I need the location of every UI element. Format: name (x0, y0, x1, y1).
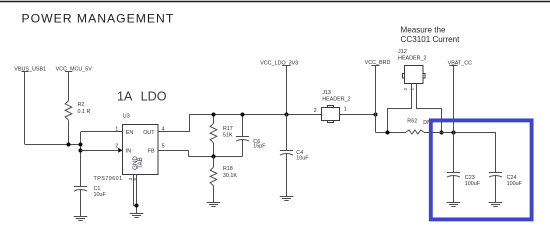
ground under U3 (130, 214, 144, 218)
junction FB/R17/R18 (212, 155, 216, 159)
junction node/VBUS (79, 143, 83, 147)
svg-text:J12: J12 (398, 49, 407, 55)
svg-text:VCC_LDO_3V3: VCC_LDO_3V3 (260, 61, 298, 67)
svg-text:30.1K: 30.1K (223, 173, 237, 179)
svg-text:R17: R17 (223, 126, 233, 132)
arrow at IN pin (118, 148, 122, 153)
svg-text:1: 1 (410, 88, 416, 91)
wire VBUS to node (25, 144, 82, 146)
wire J12 pin1 down-right (417, 84, 442, 133)
svg-text:6: 6 (132, 178, 138, 181)
resistor R2 (65, 101, 72, 121)
ground under R18 (207, 203, 221, 207)
svg-text:HEADER_2: HEADER_2 (322, 96, 350, 102)
svg-text:FB: FB (148, 149, 155, 155)
svg-text:1A: 1A (117, 90, 133, 104)
svg-text:10uF: 10uF (296, 155, 309, 161)
resistor R18 zigzag (210, 167, 217, 186)
svg-text:VBUS_USB1: VBUS_USB1 (14, 67, 46, 73)
capacitor C24 symbol (489, 172, 502, 202)
svg-text:HEADER_2: HEADER_2 (398, 56, 426, 62)
svg-text:CC3101 Current: CC3101 Current (401, 35, 461, 44)
svg-text:U3: U3 (123, 113, 130, 119)
svg-text:LDO: LDO (141, 90, 167, 104)
svg-text:15pF: 15pF (253, 143, 266, 149)
svg-text:POWER MANAGEMENT: POWER MANAGEMENT (22, 12, 175, 26)
ground under C24 (489, 203, 503, 207)
wire IN pin 2 (81, 150, 119, 152)
svg-text:4: 4 (162, 127, 165, 133)
wire R2 to node (68, 120, 70, 144)
ground under C23 (447, 203, 461, 207)
svg-text:2: 2 (314, 108, 317, 114)
svg-text:100uF: 100uF (507, 181, 523, 187)
svg-text:100uF: 100uF (465, 181, 481, 187)
svg-text:1: 1 (344, 107, 347, 113)
wire VBAT_CC down to C23 (453, 66, 455, 173)
wire 3V3 top rail (190, 114, 322, 116)
ground under C4 (280, 197, 294, 201)
svg-text:VCC_MCU_5V: VCC_MCU_5V (56, 67, 93, 73)
capacitor C23 symbol (447, 172, 460, 202)
svg-text:0.1 R: 0.1 R (78, 109, 91, 115)
resistor R17 zigzag (210, 123, 217, 143)
wire FB lower rail (189, 156, 243, 158)
top frame border (0, 1, 550, 3)
capacitor C4 symbol (280, 114, 293, 197)
svg-text:R18: R18 (223, 166, 233, 172)
svg-text:TAB: TAB (137, 157, 144, 169)
junction node/IN (79, 149, 83, 153)
svg-text:J13: J13 (322, 90, 331, 96)
wire R62 right segment (424, 132, 496, 134)
svg-text:10uF: 10uF (94, 192, 107, 198)
wire J13 pin1 to VCC_BRD (340, 114, 376, 116)
svg-text:R2: R2 (78, 102, 85, 108)
wire VCC_BRD corner to R62 line (375, 132, 406, 134)
wire OUT pin 4 (158, 131, 190, 133)
regulator U3 TPS79601 (123, 125, 159, 175)
junction R2/VBUS (67, 143, 71, 147)
svg-text:2: 2 (115, 144, 118, 150)
svg-text:TPS79601: TPS79601 (94, 176, 123, 182)
capacitor C6 symbol (236, 114, 249, 157)
highlight box (blue) (431, 120, 532, 219)
wire VBUS_USB1 down (24, 72, 26, 144)
wire input node vertical (80, 132, 82, 186)
svg-text:Measure the: Measure the (401, 25, 446, 34)
svg-text:2: 2 (403, 88, 409, 91)
resistor R18 (213, 157, 215, 168)
svg-text:IN: IN (126, 149, 131, 155)
ground under C1 (74, 217, 88, 221)
svg-text:5: 5 (162, 144, 165, 150)
svg-text:1: 1 (115, 127, 118, 133)
svg-text:R62: R62 (407, 119, 417, 125)
pin 3 and 6 wires below U3 (133, 174, 135, 206)
wire VCC_MCU_5V to R2 (68, 72, 70, 101)
resistor R17 (213, 114, 215, 123)
wire to C24 (495, 132, 497, 172)
svg-text:OUT: OUT (143, 130, 155, 136)
wire J12 pin2 down-left (388, 84, 412, 133)
wire EN pin 1 (81, 131, 123, 133)
wire FB pin 5 (158, 150, 189, 152)
capacitor C1 symbol (74, 186, 87, 216)
svg-text:EN: EN (126, 130, 134, 136)
svg-text:51K: 51K (223, 132, 233, 138)
